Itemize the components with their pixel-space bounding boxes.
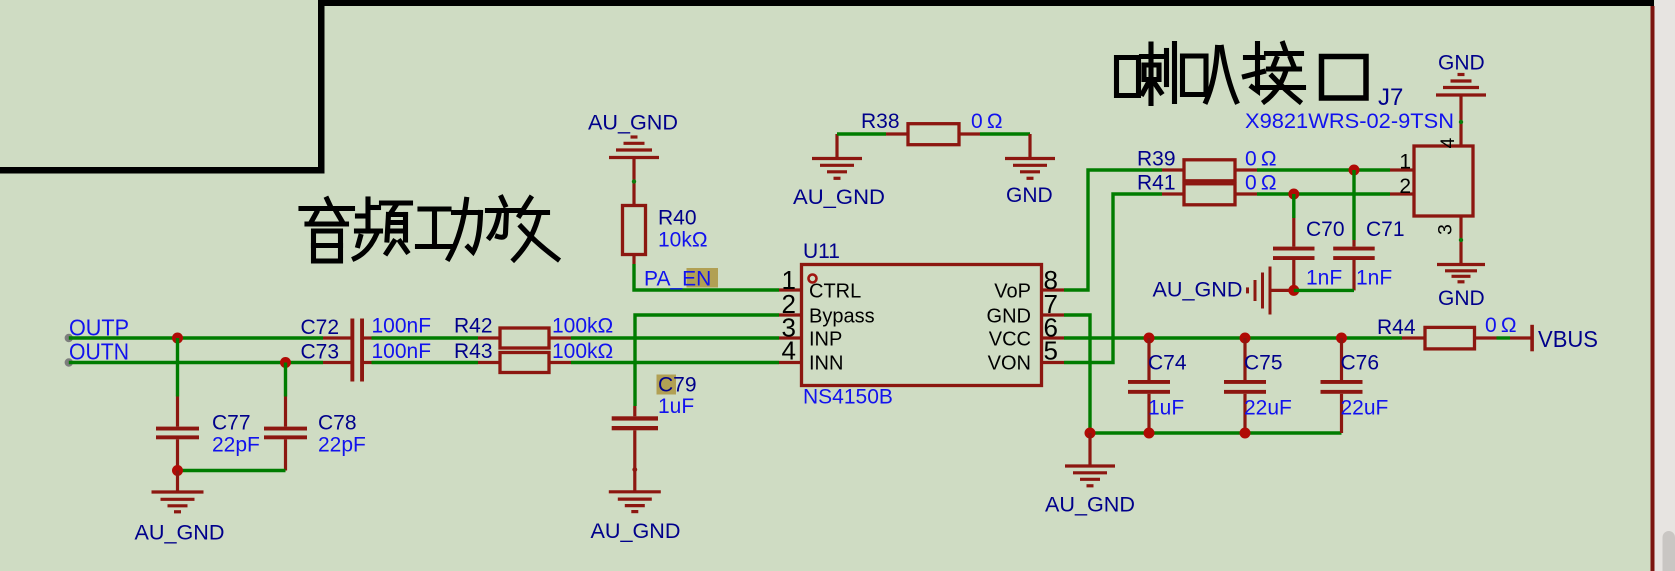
wire OUTN to C73 [69, 361, 323, 364]
svg-text:C79: C79 [658, 374, 697, 397]
svg-text:AU_GND: AU_GND [135, 522, 225, 545]
capacitor C72 [301, 315, 432, 382]
resistor R44 [1377, 314, 1517, 349]
svg-text:Bypass: Bypass [809, 306, 875, 328]
node OUTN [65, 339, 129, 367]
junction VCC/C75 [1240, 333, 1251, 344]
resistor R41 [1137, 172, 1277, 205]
power label AU_GND (C77) [135, 522, 225, 545]
ground GND above J7 (flipped) [1436, 75, 1486, 96]
svg-text:GND: GND [1006, 184, 1053, 207]
svg-text:0 Ω: 0 Ω [1485, 314, 1517, 337]
junction gnd rail C75 [1240, 428, 1251, 439]
capacitor C71 [1333, 218, 1404, 290]
ground AU_GND below rail [1065, 433, 1115, 486]
title text: 喇叭接口 (drawn strokes) [1117, 44, 1367, 104]
svg-text:CTRL: CTRL [809, 281, 861, 303]
svg-text:22pF: 22pF [318, 434, 366, 457]
wire C78 bottom to C77 bottom [178, 469, 286, 472]
wire R41 to J7 pin2 [1257, 192, 1390, 195]
svg-text:R38: R38 [861, 110, 900, 133]
svg-text:0 Ω: 0 Ω [1245, 148, 1277, 171]
wire C72 to R42 [372, 336, 479, 339]
svg-text:R39: R39 [1137, 148, 1176, 171]
svg-text:C74: C74 [1148, 352, 1187, 375]
junction gnd rail left [1085, 428, 1096, 439]
char ba [1183, 56, 1207, 95]
power port VBUS [1510, 325, 1598, 352]
char la [1117, 58, 1139, 96]
svg-text:U11: U11 [803, 240, 840, 263]
svg-text:INN: INN [809, 353, 843, 375]
wire R44 to VBUS [1497, 336, 1511, 339]
pin 7 GND [987, 289, 1064, 328]
svg-text:100kΩ: 100kΩ [552, 340, 613, 363]
power label AU_GND (C79) [591, 520, 681, 543]
char pin [365, 199, 370, 231]
capacitor C73 [301, 340, 432, 364]
svg-text:3: 3 [1435, 224, 1457, 235]
power label GND (J7 bottom) [1438, 287, 1485, 310]
capacitor C79 [612, 374, 697, 492]
title text: 音频功放 (drawn strokes) [301, 198, 558, 262]
svg-text:AU_GND: AU_GND [588, 112, 678, 135]
svg-text:R40: R40 [658, 207, 697, 230]
wire down to C78 [284, 363, 287, 397]
svg-text:VBUS: VBUS [1538, 326, 1598, 352]
J7 pin 2 [1390, 175, 1414, 198]
svg-text:VCC: VCC [989, 329, 1031, 351]
svg-text:1nF: 1nF [1306, 267, 1342, 290]
pin 2 Bypass [779, 289, 875, 328]
pin 1 CTRL [779, 265, 861, 303]
junction C70/C71 ground rail [1288, 285, 1299, 296]
pin 4 INN [779, 336, 843, 375]
svg-text:100nF: 100nF [372, 340, 432, 363]
ground GND below J7 [1437, 265, 1485, 282]
svg-text:C70: C70 [1306, 218, 1345, 241]
capacitor C78 [264, 397, 366, 471]
wire pin7 GND down [1064, 315, 1090, 433]
capacitor C74 [1128, 338, 1187, 433]
svg-text:10kΩ: 10kΩ [658, 229, 708, 252]
junction gnd rail C74 [1144, 428, 1155, 439]
pin 8 VoP [994, 265, 1064, 303]
svg-text:1uF: 1uF [658, 395, 694, 418]
svg-text:R43: R43 [454, 340, 493, 363]
svg-text:GND: GND [1438, 52, 1485, 75]
wire ground rail [1090, 431, 1342, 434]
junction R39 net / C71 [1349, 165, 1360, 176]
wire C70 gnd to C71 [1294, 289, 1354, 292]
junction R41 net / C70 [1288, 189, 1299, 200]
svg-text:C76: C76 [1341, 352, 1380, 375]
schematic sheet right border (maroon) [1651, 6, 1655, 571]
svg-text:100kΩ: 100kΩ [552, 315, 613, 338]
wire pin5 VON up to R41 [1064, 194, 1162, 363]
svg-text:INP: INP [809, 329, 842, 351]
svg-text:PA_EN: PA_EN [644, 268, 711, 291]
svg-text:4: 4 [782, 336, 796, 366]
svg-text:AU_GND: AU_GND [1045, 494, 1135, 517]
junction at C77 bottom [172, 465, 183, 476]
svg-text:4: 4 [1437, 137, 1459, 148]
J7 pin 1 [1390, 151, 1414, 174]
junction on OUTN at C78 [280, 357, 291, 368]
svg-text:C75: C75 [1244, 352, 1283, 375]
power label AU_GND (above R40) [588, 112, 678, 135]
svg-text:C77: C77 [212, 412, 251, 435]
svg-text:C78: C78 [318, 412, 357, 435]
junction VCC/C76 [1336, 333, 1347, 344]
J7 pin 4 (top) [1437, 95, 1463, 148]
svg-text:R44: R44 [1377, 316, 1416, 339]
resistor R43 [454, 340, 613, 373]
char jie [1252, 44, 1258, 92]
scrollbar thumb [1663, 531, 1675, 571]
connector J7 [1245, 84, 1473, 216]
capacitor C70 [1273, 218, 1345, 290]
capacitor C76 [1321, 338, 1389, 433]
pin 3 INP [779, 313, 842, 351]
svg-text:OUTN: OUTN [69, 339, 129, 365]
wire R39 to J7 pin1 [1257, 168, 1390, 171]
wire C73 to R43 [372, 361, 479, 364]
char kou [1322, 57, 1367, 99]
scrollbar track [1655, 0, 1675, 571]
sheet corner border (black) [0, 0, 1654, 174]
ground GND right of R38 [1005, 134, 1055, 178]
svg-text:R41: R41 [1137, 172, 1176, 195]
svg-text:C73: C73 [301, 341, 340, 364]
junction on OUTP at C77 [172, 333, 183, 344]
svg-text:1uF: 1uF [1148, 397, 1184, 420]
svg-text:GND: GND [987, 306, 1031, 328]
svg-text:GND: GND [1438, 287, 1485, 310]
svg-text:VON: VON [988, 353, 1031, 375]
power label AU_GND (R38) [793, 186, 885, 209]
pin end marker R40 top [632, 179, 636, 183]
wire R43 to U11 pin4 [571, 361, 779, 364]
wire AU_GND to R38 [837, 132, 886, 135]
wire R38 to GND [980, 132, 1030, 135]
wire junction down to C71 [1352, 170, 1355, 240]
char gong [420, 206, 449, 211]
svg-text:22uF: 22uF [1244, 397, 1292, 420]
pin 5 VON [988, 336, 1064, 375]
capacitor C75 [1224, 338, 1292, 433]
resistor R39 [1137, 148, 1277, 181]
svg-text:AU_GND: AU_GND [1153, 279, 1243, 302]
wire R42 to U11 pin3 [571, 336, 779, 339]
svg-text:0 Ω: 0 Ω [971, 110, 1003, 133]
ground AU_GND below C79 [609, 492, 661, 512]
power label GND (R38) [1006, 184, 1053, 207]
resistor R42 [454, 315, 613, 349]
wire junction down to C70 [1292, 194, 1295, 218]
char yin [327, 199, 331, 207]
power label GND (J7 top) [1438, 52, 1485, 75]
svg-text:2: 2 [1399, 175, 1411, 198]
svg-text:22pF: 22pF [212, 434, 260, 457]
node OUTP [65, 315, 129, 343]
J7 pin 3 (bottom) [1435, 216, 1464, 265]
svg-text:NS4150B: NS4150B [803, 386, 893, 409]
wire U11 pin2 Bypass down to C79 [635, 315, 779, 406]
wire R40 to pin1 [634, 264, 779, 290]
svg-text:AU_GND: AU_GND [793, 186, 885, 209]
char fang [502, 198, 506, 206]
svg-text:100nF: 100nF [372, 315, 432, 338]
op-amp U11 body [802, 240, 1042, 409]
svg-text:5: 5 [1044, 336, 1058, 366]
junction VCC/C74 [1144, 333, 1155, 344]
svg-text:C71: C71 [1366, 218, 1405, 241]
wire down to C77 [176, 338, 179, 397]
svg-text:VoP: VoP [994, 281, 1031, 303]
ground AU_GND rotated (C70/C71) [1248, 267, 1294, 315]
capacitor C77 [156, 397, 260, 471]
svg-text:C72: C72 [301, 316, 340, 339]
svg-text:J7: J7 [1378, 84, 1403, 111]
wire VCC rail [1064, 336, 1402, 339]
svg-text:1nF: 1nF [1356, 267, 1392, 290]
svg-text:AU_GND: AU_GND [591, 520, 681, 543]
svg-text:R42: R42 [454, 315, 493, 338]
svg-text:22uF: 22uF [1341, 397, 1389, 420]
wire pin8 VoP up to R39 [1064, 170, 1162, 290]
power label AU_GND (rail) [1045, 494, 1135, 517]
resistor R40 [623, 206, 708, 265]
resistor R38 [861, 110, 1003, 145]
power label AU_GND (C70/C71) [1153, 279, 1243, 302]
pin 6 VCC [989, 313, 1064, 351]
wire OUTP to C72 [69, 336, 323, 339]
ground AU_GND below C77 [152, 471, 204, 512]
svg-text:0 Ω: 0 Ω [1245, 172, 1277, 195]
ground AU_GND left of R38 [812, 134, 862, 178]
svg-text:1: 1 [1399, 151, 1411, 174]
ground AU_GND above R40 (flipped) [609, 137, 659, 206]
svg-text:X9821WRS-02-9TSN: X9821WRS-02-9TSN [1245, 110, 1454, 133]
net label PA_EN [644, 268, 718, 291]
